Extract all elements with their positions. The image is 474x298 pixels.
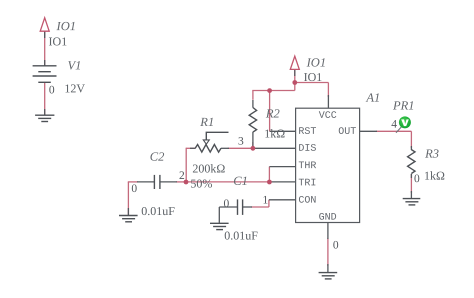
svg-text:0: 0 xyxy=(414,173,420,185)
svg-text:0.01uF: 0.01uF xyxy=(224,228,258,242)
svg-text:12V: 12V xyxy=(64,81,85,95)
svg-text:IO1: IO1 xyxy=(49,34,68,48)
svg-text:OUT: OUT xyxy=(338,127,356,138)
svg-text:DIS: DIS xyxy=(298,144,316,155)
svg-text:C1: C1 xyxy=(233,174,248,188)
svg-text:3: 3 xyxy=(238,136,244,148)
svg-text:C2: C2 xyxy=(150,150,165,164)
svg-text:1kΩ: 1kΩ xyxy=(264,127,285,141)
svg-text:IO1: IO1 xyxy=(306,56,326,70)
svg-text:0: 0 xyxy=(131,183,137,195)
svg-text:THR: THR xyxy=(298,161,316,172)
svg-text:0: 0 xyxy=(333,240,339,252)
svg-text:1: 1 xyxy=(262,195,268,207)
svg-text:4: 4 xyxy=(391,119,397,131)
svg-text:V1: V1 xyxy=(68,58,82,72)
svg-text:200kΩ: 200kΩ xyxy=(192,161,225,175)
svg-text:PR1: PR1 xyxy=(392,98,415,112)
svg-text:2: 2 xyxy=(179,170,185,182)
svg-text:R3: R3 xyxy=(424,147,439,161)
svg-text:IO1: IO1 xyxy=(304,70,323,84)
svg-text:R2: R2 xyxy=(265,107,280,121)
svg-text:A1: A1 xyxy=(365,91,380,105)
svg-text:0.01uF: 0.01uF xyxy=(141,204,175,218)
svg-text:0: 0 xyxy=(49,84,55,96)
svg-text:0: 0 xyxy=(223,198,229,210)
svg-text:1kΩ: 1kΩ xyxy=(424,169,445,183)
svg-text:CON: CON xyxy=(298,196,316,207)
svg-text:TRI: TRI xyxy=(298,178,316,189)
svg-text:IO1: IO1 xyxy=(56,19,76,33)
svg-text:RST: RST xyxy=(298,127,316,138)
svg-text:50%: 50% xyxy=(190,176,212,190)
svg-text:R1: R1 xyxy=(199,115,214,129)
svg-text:GND: GND xyxy=(319,213,337,224)
svg-text:VCC: VCC xyxy=(319,111,337,122)
